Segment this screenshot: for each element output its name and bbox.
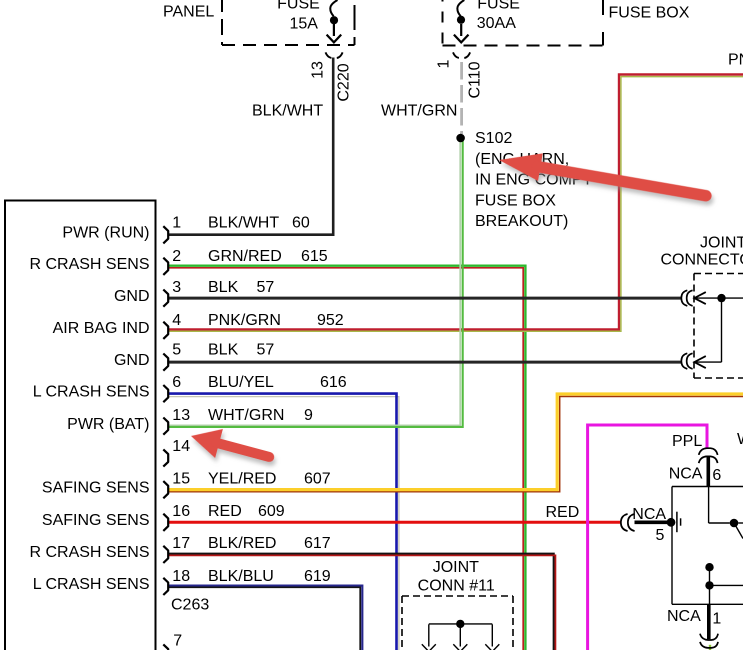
svg-text:WH: WH bbox=[737, 431, 743, 448]
svg-text:30AA: 30AA bbox=[477, 15, 516, 32]
svg-text:GND: GND bbox=[114, 352, 150, 369]
svg-text:WHT/GRN: WHT/GRN bbox=[381, 103, 457, 120]
svg-text:CONN #11: CONN #11 bbox=[418, 577, 495, 594]
svg-text:FUSE: FUSE bbox=[477, 0, 520, 12]
svg-text:952: 952 bbox=[317, 312, 344, 329]
svg-text:609: 609 bbox=[258, 503, 285, 520]
svg-text:6: 6 bbox=[712, 467, 721, 484]
svg-text:AIR BAG IND: AIR BAG IND bbox=[53, 320, 150, 337]
svg-text:R CRASH SENS: R CRASH SENS bbox=[29, 544, 149, 561]
svg-text:R CRASH SENS: R CRASH SENS bbox=[29, 256, 149, 273]
svg-text:615: 615 bbox=[301, 248, 328, 265]
svg-text:SAFING SENS: SAFING SENS bbox=[42, 480, 150, 497]
svg-text:FUSE: FUSE bbox=[277, 0, 320, 12]
svg-text:FUSE BOX: FUSE BOX bbox=[475, 192, 556, 209]
svg-text:14: 14 bbox=[172, 438, 190, 455]
svg-text:18: 18 bbox=[172, 568, 190, 585]
svg-text:NCA: NCA bbox=[669, 465, 703, 482]
svg-text:57: 57 bbox=[257, 342, 275, 359]
svg-text:BLK: BLK bbox=[208, 342, 239, 359]
svg-text:3: 3 bbox=[172, 279, 181, 296]
svg-text:JOINT: JOINT bbox=[433, 559, 479, 576]
svg-text:9: 9 bbox=[304, 407, 313, 424]
svg-text:15A: 15A bbox=[289, 15, 318, 32]
svg-text:15: 15 bbox=[172, 471, 190, 488]
svg-text:619: 619 bbox=[304, 568, 331, 585]
svg-text:BREAKOUT): BREAKOUT) bbox=[475, 213, 568, 230]
svg-text:13: 13 bbox=[310, 61, 327, 79]
svg-text:17: 17 bbox=[172, 535, 190, 552]
svg-text:607: 607 bbox=[304, 471, 331, 488]
svg-text:BLU/YEL: BLU/YEL bbox=[208, 374, 274, 391]
svg-text:BLK: BLK bbox=[208, 279, 239, 296]
svg-text:1: 1 bbox=[436, 59, 453, 68]
svg-text:L CRASH SENS: L CRASH SENS bbox=[33, 383, 150, 400]
svg-text:BLK/WHT: BLK/WHT bbox=[208, 215, 279, 232]
svg-text:C263: C263 bbox=[171, 597, 209, 614]
svg-text:PNK/GRN: PNK/GRN bbox=[208, 312, 281, 329]
svg-text:7: 7 bbox=[173, 632, 182, 649]
svg-text:C220: C220 bbox=[336, 63, 353, 101]
svg-text:16: 16 bbox=[172, 503, 190, 520]
svg-text:4: 4 bbox=[172, 312, 181, 329]
svg-text:1: 1 bbox=[712, 611, 721, 628]
svg-text:PWR (BAT): PWR (BAT) bbox=[67, 416, 149, 433]
svg-text:617: 617 bbox=[304, 535, 331, 552]
svg-text:60: 60 bbox=[292, 215, 310, 232]
svg-text:5: 5 bbox=[172, 342, 181, 359]
svg-text:6: 6 bbox=[172, 374, 181, 391]
svg-text:BLK/RED: BLK/RED bbox=[208, 535, 276, 552]
svg-text:GRN/RED: GRN/RED bbox=[208, 248, 282, 265]
svg-text:FUSE BOX: FUSE BOX bbox=[609, 5, 690, 22]
svg-text:NCA: NCA bbox=[632, 506, 666, 523]
svg-text:CONNECTOR: CONNECTOR bbox=[661, 252, 743, 269]
svg-text:WHT/GRN: WHT/GRN bbox=[208, 407, 284, 424]
svg-text:PNK: PNK bbox=[728, 51, 743, 68]
svg-text:S102: S102 bbox=[475, 130, 512, 147]
svg-text:YEL/RED: YEL/RED bbox=[208, 471, 276, 488]
svg-text:RED: RED bbox=[208, 503, 242, 520]
svg-text:13: 13 bbox=[172, 407, 190, 424]
svg-text:PANEL: PANEL bbox=[163, 4, 214, 21]
svg-text:PPL: PPL bbox=[672, 433, 702, 450]
svg-text:RED: RED bbox=[546, 504, 580, 521]
svg-text:PWR (RUN): PWR (RUN) bbox=[62, 225, 149, 242]
svg-text:GND: GND bbox=[114, 288, 150, 305]
svg-text:616: 616 bbox=[320, 374, 347, 391]
svg-text:5: 5 bbox=[656, 527, 665, 544]
svg-text:57: 57 bbox=[257, 279, 275, 296]
svg-text:SAFING SENS: SAFING SENS bbox=[42, 512, 150, 529]
svg-text:BLK/WHT: BLK/WHT bbox=[252, 103, 323, 120]
svg-text:L CRASH SENS: L CRASH SENS bbox=[33, 576, 150, 593]
svg-text:C110: C110 bbox=[467, 61, 484, 98]
svg-text:NCA: NCA bbox=[667, 608, 701, 625]
svg-text:BLK/BLU: BLK/BLU bbox=[208, 568, 274, 585]
svg-text:2: 2 bbox=[172, 248, 181, 265]
svg-text:1: 1 bbox=[172, 215, 181, 232]
svg-text:JOINT: JOINT bbox=[700, 235, 743, 252]
